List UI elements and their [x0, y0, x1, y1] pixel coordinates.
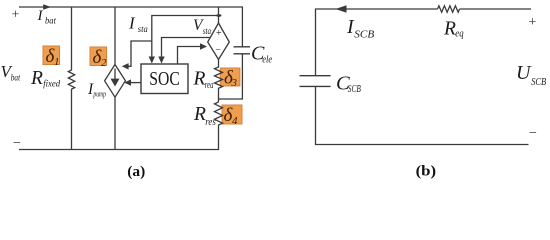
svg-text:R: R	[443, 19, 456, 40]
svg-text:SCB: SCB	[354, 30, 375, 41]
capacitor C_SCB	[300, 76, 331, 87]
wire top rail (a)	[19, 6, 243, 8]
svg-text:R: R	[193, 104, 206, 125]
delta box D4	[222, 105, 242, 127]
svg-text:2: 2	[101, 57, 107, 69]
svg-text:+: +	[216, 28, 222, 39]
resistor R_eq	[438, 6, 460, 12]
label I_bat	[37, 8, 57, 25]
label R_fixed	[30, 68, 60, 89]
svg-text:SCB: SCB	[531, 77, 546, 88]
svg-text:R: R	[30, 68, 43, 89]
wire SOC to V_sta control	[178, 43, 208, 64]
wire SOC to I_pump control	[124, 79, 141, 85]
current arrow I_bat	[43, 4, 51, 9]
delta box D2	[90, 47, 107, 69]
delta box D3	[220, 68, 240, 90]
label R_res	[193, 104, 216, 128]
label I_pump	[87, 81, 106, 99]
svg-text:eq: eq	[455, 29, 463, 40]
controlled source V_sta	[208, 7, 230, 68]
svg-text:SCB: SCB	[348, 84, 361, 95]
svg-text:−: −	[13, 136, 21, 151]
svg-text:+: +	[529, 15, 537, 30]
svg-text:3: 3	[231, 77, 238, 89]
svg-text:(b): (b)	[416, 164, 437, 180]
svg-text:res: res	[205, 117, 216, 128]
label I_SCB	[346, 16, 375, 41]
wire bottom rail (a)	[19, 149, 219, 151]
current source I_pump	[105, 7, 126, 150]
svg-text:ele: ele	[262, 55, 272, 66]
svg-text:SOC: SOC	[149, 68, 180, 90]
svg-text:sta: sta	[203, 26, 212, 36]
wire bottom rail (b)	[316, 86, 529, 144]
node junction dot	[216, 14, 221, 17]
svg-text:pump: pump	[93, 89, 106, 99]
svg-text:+: +	[12, 8, 20, 23]
wire top rail (b)	[316, 9, 438, 76]
svg-text:sta: sta	[138, 25, 148, 35]
label C_ele	[251, 43, 273, 66]
svg-text:−: −	[215, 45, 221, 56]
label R_rea	[193, 68, 214, 91]
delta box D1	[43, 46, 60, 68]
svg-text:R: R	[193, 68, 206, 89]
resistor R_fixed	[68, 7, 74, 150]
current arrow I_SCB	[336, 5, 347, 13]
svg-text:(a): (a)	[127, 164, 145, 180]
capacitor C_ele	[219, 7, 250, 99]
svg-text:rea: rea	[205, 80, 214, 91]
svg-text:U: U	[516, 62, 532, 84]
SOC block U1	[141, 64, 188, 94]
wire V_sta sense to SOC	[158, 38, 210, 64]
wire I_sta to I_pump control	[122, 41, 152, 70]
label V_bat	[1, 62, 21, 82]
label V_sta	[193, 17, 212, 36]
svg-text:bat: bat	[11, 72, 21, 82]
label I_sta	[128, 13, 148, 35]
resistor R_res	[215, 102, 223, 150]
svg-text:1: 1	[54, 56, 60, 68]
wire I_sta sense	[149, 16, 219, 64]
label C_SCB	[336, 73, 361, 96]
svg-text:bat: bat	[45, 15, 56, 25]
svg-text:4: 4	[232, 115, 238, 127]
svg-text:I: I	[37, 8, 44, 24]
label R_eq	[443, 19, 464, 40]
svg-text:fixed: fixed	[43, 78, 60, 89]
resistor R_rea	[215, 67, 223, 102]
label U_SCB	[516, 62, 547, 88]
svg-text:−: −	[529, 126, 537, 141]
